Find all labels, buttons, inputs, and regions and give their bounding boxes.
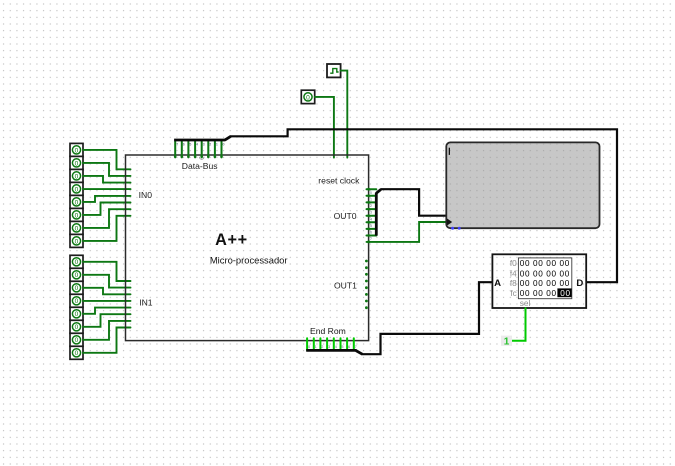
svg-text:End Rom: End Rom — [310, 326, 346, 336]
svg-text:IN1: IN1 — [139, 298, 153, 308]
svg-text:0: 0 — [75, 324, 79, 331]
svg-text:0: 0 — [75, 337, 79, 344]
svg-text:f8: f8 — [510, 279, 517, 288]
svg-text:00 00 00 00: 00 00 00 00 — [520, 259, 570, 268]
svg-text:0: 0 — [75, 147, 79, 154]
svg-text:IN0: IN0 — [139, 190, 153, 200]
svg-text:0: 0 — [223, 143, 225, 147]
svg-text:0: 0 — [75, 212, 79, 219]
svg-text:3: 3 — [370, 211, 372, 215]
svg-text:4: 4 — [370, 217, 372, 221]
svg-text:0: 0 — [75, 173, 79, 180]
svg-text:00 00 00: 00 00 00 — [520, 289, 557, 298]
svg-text:0: 0 — [370, 191, 372, 195]
svg-text:7: 7 — [176, 143, 178, 147]
svg-text:reset clock: reset clock — [318, 176, 360, 186]
svg-text:5: 5 — [370, 224, 372, 228]
svg-text:0: 0 — [75, 298, 79, 305]
svg-text:Data-Bus: Data-Bus — [182, 161, 218, 171]
svg-text:1: 1 — [315, 345, 317, 349]
svg-text:5: 5 — [342, 345, 344, 349]
svg-text:1: 1 — [370, 197, 372, 201]
svg-text:f4: f4 — [510, 269, 517, 278]
svg-text:4: 4 — [335, 345, 337, 349]
svg-text:0: 0 — [75, 272, 79, 279]
svg-text:2: 2 — [209, 143, 211, 147]
svg-text:0: 0 — [75, 311, 79, 318]
svg-text:0: 0 — [75, 350, 79, 357]
svg-text:00 00 00 00: 00 00 00 00 — [520, 279, 570, 288]
svg-text:6: 6 — [183, 143, 185, 147]
svg-text:f0: f0 — [510, 259, 517, 268]
svg-text:0: 0 — [75, 225, 79, 232]
svg-text:D: D — [576, 278, 583, 289]
svg-text:A++: A++ — [215, 231, 248, 249]
svg-text:6: 6 — [348, 345, 350, 349]
svg-text:0: 0 — [75, 199, 79, 206]
svg-text:Micro-processador: Micro-processador — [210, 255, 288, 266]
svg-text:0: 0 — [75, 259, 79, 266]
svg-text:7: 7 — [355, 345, 357, 349]
svg-text:fc: fc — [510, 289, 516, 298]
svg-text:5: 5 — [189, 143, 191, 147]
svg-text:00 00 00 00: 00 00 00 00 — [520, 269, 570, 278]
svg-text:OUT0: OUT0 — [334, 211, 357, 221]
svg-text:A: A — [494, 278, 501, 289]
svg-text:1: 1 — [504, 336, 510, 347]
svg-text:1: 1 — [216, 143, 218, 147]
svg-text:0: 0 — [306, 94, 310, 101]
svg-text:0: 0 — [75, 160, 79, 167]
svg-text:3: 3 — [203, 143, 205, 147]
svg-text:0: 0 — [75, 186, 79, 193]
svg-text:sel: sel — [520, 299, 531, 308]
svg-text:2: 2 — [321, 345, 323, 349]
svg-text:3: 3 — [328, 345, 330, 349]
svg-text:7: 7 — [370, 237, 372, 241]
svg-text:0: 0 — [308, 345, 310, 349]
svg-text:6: 6 — [370, 231, 372, 235]
svg-text:OUT1: OUT1 — [334, 281, 357, 291]
svg-text:2: 2 — [370, 204, 372, 208]
svg-text:4: 4 — [196, 143, 198, 147]
svg-text:00: 00 — [560, 289, 570, 298]
svg-text:0: 0 — [75, 285, 79, 292]
svg-text:0: 0 — [75, 238, 79, 245]
